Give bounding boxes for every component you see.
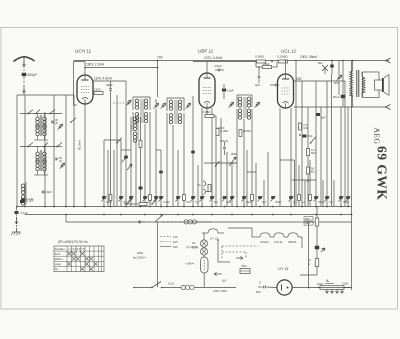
wire antenna bus (17, 94, 74, 96)
wire v339 (338, 61, 340, 96)
capacitor trimmer IF1a (154, 99, 159, 207)
coil oscillator main (130, 114, 138, 142)
svg-text:Schalter: Schalter (55, 247, 65, 251)
resistor 0.2M (202, 110, 214, 118)
wire UCL pins (280, 108, 291, 207)
label 190V 2.2mA (86, 63, 105, 67)
switch bus a (124, 199, 138, 205)
wire v321 (320, 107, 322, 207)
svg-text:1500: 1500 (94, 88, 101, 92)
coil mains choke (184, 220, 212, 224)
resistor small (251, 195, 254, 201)
label 110V 4.8mA (94, 77, 113, 81)
wire switch row 1 (20, 113, 62, 115)
wire UCH g2 line (93, 80, 126, 82)
transformer IF3 (237, 95, 252, 119)
capacitor 50&#181;F (241, 196, 252, 204)
capacitor 45pF (106, 81, 113, 95)
switch S1a (27, 110, 33, 115)
resistor 200 300 (304, 217, 319, 227)
switch tone right (318, 61, 328, 74)
switch S2b (56, 143, 62, 148)
wire chassis bus 2 (25, 214, 352, 216)
svg-text:2MΩ: 2MΩ (231, 152, 237, 156)
capacitor 50pF (55, 156, 62, 163)
wire UY to right (292, 287, 351, 289)
switch bus c (151, 199, 157, 205)
svg-text:Mittel—: Mittel— (55, 257, 64, 261)
resistor 5nF (183, 195, 191, 205)
svg-text:0,1µF: 0,1µF (26, 197, 33, 201)
svg-text:110V, 4.8mA: 110V, 4.8mA (94, 77, 113, 81)
capacitor 0,1 (142, 196, 151, 204)
capacitor tone top (330, 60, 334, 74)
wire v341 (340, 107, 342, 207)
wire UCH screen (84, 67, 158, 69)
arrow band 2 (127, 164, 132, 170)
label header row (68, 247, 85, 251)
coil band L3 (36, 150, 46, 171)
svg-text:0,100: 0,100 (130, 124, 134, 131)
svg-text:AEG: AEG (373, 128, 382, 145)
junction dots bus2 (65, 214, 352, 216)
coil antenna L2 (36, 126, 46, 136)
speaker (363, 72, 390, 98)
tube UCL11 (278, 74, 294, 108)
wire rail E (65, 95, 67, 207)
terminal fork bottom right (385, 104, 390, 109)
wire UCH anode loop (74, 62, 86, 106)
wire v327 (326, 81, 328, 207)
svg-text:400Ω: 400Ω (317, 282, 323, 286)
svg-text:220V≈ 50Hz: 220V≈ 50Hz (213, 289, 228, 293)
capacitor 4.5pF (214, 64, 224, 71)
svg-text:0,1µF: 0,1µF (163, 200, 170, 204)
table band switch (54, 246, 104, 272)
label UBF11 (198, 49, 214, 54)
capacitor 50&#181;F (338, 196, 349, 204)
wire v252 down (251, 119, 253, 207)
capacitor 3uF top (316, 113, 326, 120)
resistor osc grid (139, 117, 142, 207)
potentiometer volume 2M (229, 152, 237, 166)
capacitor 5nF trim (334, 75, 342, 85)
svg-text:25µF: 25µF (275, 200, 281, 204)
svg-text:0,1: 0,1 (262, 200, 266, 204)
wire v294.5 (294, 160, 296, 207)
wire link y172 (247, 171, 256, 173)
wire v237 down (236, 119, 238, 207)
svg-text:25µF: 25µF (318, 200, 324, 204)
wire v308 lower (308, 222, 310, 288)
resistor 2M (256, 62, 277, 69)
svg-text:0,15MΩ: 0,15MΩ (277, 55, 288, 59)
svg-text:10pF: 10pF (46, 190, 53, 194)
switch S1c (70, 118, 76, 123)
svg-text:0,1: 0,1 (195, 200, 199, 204)
wire UCL anode (285, 60, 287, 74)
label theta c (325, 279, 334, 284)
svg-text:500pF: 500pF (28, 73, 38, 77)
capacitor small (128, 196, 133, 202)
tube UY11 circle (277, 280, 292, 295)
wire v334 (333, 180, 335, 207)
svg-text:UBF 11: UBF 11 (198, 49, 214, 54)
wire v331 (331, 74, 333, 207)
svg-text:2MΩ: 2MΩ (263, 62, 270, 66)
wire coil taps 1 (34, 114, 48, 141)
label 18V (296, 77, 303, 81)
label ZF frequency (57, 240, 88, 244)
wire v157 drop (157, 222, 159, 287)
resistor 1,2 (298, 195, 306, 205)
tube UCH11 (77, 75, 93, 104)
ground symbol (11, 228, 20, 235)
label 0.14 (168, 282, 174, 286)
svg-text:220: 220 (173, 245, 178, 249)
wire v117 (116, 95, 118, 207)
capacitor block mid c (191, 151, 195, 154)
label mains small (213, 289, 228, 293)
arrow band 1 (122, 156, 127, 162)
svg-text:UY 11: UY 11 (210, 237, 218, 241)
capacitor block 0.1uF left (21, 199, 34, 203)
svg-text:0,14: 0,14 (168, 282, 174, 286)
wire v131 (130, 117, 132, 207)
capacitor 10pF osc (42, 190, 52, 194)
wire antenna lead dashed (22, 61, 25, 71)
terminal fork top right (385, 58, 390, 63)
wire v110 (110, 95, 112, 207)
wire v126 (125, 81, 127, 207)
wire v345 (344, 81, 346, 207)
capacitor 25&#181;F (270, 196, 281, 204)
wire link y150a (121, 149, 131, 151)
capacitor 0,1&#181;F (158, 196, 170, 204)
wire v244 down (243, 119, 245, 207)
resistor 6xA (308, 258, 319, 267)
lamp scale 1 (200, 240, 207, 247)
wire link y128 (218, 127, 225, 129)
switch tone (215, 161, 220, 167)
capacitor 25&#181;F (313, 196, 324, 204)
wire link y160 (280, 159, 294, 161)
svg-text:2µF: 2µF (222, 279, 227, 283)
svg-text:50µF: 50µF (333, 95, 340, 99)
wire v167 down (166, 125, 168, 207)
wire dial cord (113, 102, 124, 104)
wire mains line (133, 287, 152, 289)
capacitor trimmer b (60, 163, 65, 169)
resistor 50k right (307, 167, 315, 182)
label UY11 (278, 266, 289, 271)
svg-text:kΩ: kΩ (311, 170, 315, 174)
capacitor Ua (315, 246, 326, 252)
svg-text:50,5mA: 50,5mA (78, 140, 82, 150)
svg-text:TA: TA (197, 183, 201, 187)
svg-text:190V, 2.2mA: 190V, 2.2mA (86, 63, 105, 67)
capacitor trimmer IF3a (229, 102, 234, 108)
label 190V 36mA (300, 55, 318, 59)
transformer IF2 (167, 98, 184, 125)
wire mains right seg (267, 286, 278, 289)
capacitor 0,1 (288, 196, 297, 204)
capacitor trimmer IF3b (255, 102, 260, 108)
wire chassis bus 1 (17, 206, 352, 208)
svg-text:MΩ: MΩ (304, 126, 308, 130)
svg-text:0,1µF: 0,1µF (21, 211, 28, 215)
capacitor tuning var (126, 100, 131, 106)
wire rail C (44, 112, 46, 207)
label lamp values (192, 241, 198, 250)
wire v178 (177, 150, 179, 207)
jack TA lower (203, 189, 209, 194)
resistor 0.1M right (307, 148, 316, 156)
svg-text:0,3MΩ: 0,3MΩ (255, 55, 265, 59)
wire v136 (135, 140, 137, 207)
wire lamp chain (203, 233, 205, 287)
capacitor block mid a (124, 156, 128, 159)
resistor small (149, 195, 152, 201)
wire rail F (73, 95, 75, 207)
switch mains (151, 282, 162, 289)
label 240V note (185, 262, 197, 266)
wire y275 (300, 274, 317, 276)
wire v108 (107, 150, 109, 207)
svg-text:3µF: 3µF (227, 200, 232, 204)
wire v150 (149, 124, 151, 207)
svg-text:4,5pF: 4,5pF (214, 64, 222, 68)
svg-text:26W: 26W (137, 251, 143, 255)
transformer output core (357, 70, 359, 97)
lamp scale 2 (200, 248, 207, 255)
svg-text:75Ω: 75Ω (241, 264, 247, 268)
heater UY11 bump (202, 229, 224, 241)
wire mains mid (162, 221, 184, 223)
wire v348 (347, 107, 349, 207)
wire link y163 (204, 162, 237, 164)
wire v256 (255, 163, 257, 207)
wire v104 (103, 140, 105, 207)
svg-text:Kurz: Kurz (55, 252, 61, 256)
label AEG 69 GWK (373, 128, 390, 201)
capacitor 5nF mains (256, 281, 265, 295)
wire heater feed (228, 228, 302, 248)
switch S2a (27, 143, 33, 148)
wire gnd lead (15, 215, 18, 229)
wire v121 (120, 140, 122, 207)
wire link y180 (292, 179, 316, 181)
resistor 0.3M (255, 55, 266, 64)
capacitor block mid b (159, 171, 163, 174)
wire v114 (113, 150, 115, 207)
wire selector dashes (222, 246, 258, 260)
svg-text:1,2: 1,2 (301, 200, 305, 204)
wire rail D (53, 95, 55, 207)
svg-text:UBF11: UBF11 (288, 240, 297, 244)
capacitor 30pF (51, 118, 58, 125)
svg-text:5nF: 5nF (256, 290, 261, 294)
svg-text:(Uₖ=220V): (Uₖ=220V) (186, 245, 198, 249)
wire v317 (316, 207, 318, 276)
wire bus 3 (66, 221, 352, 223)
svg-text:MΩ: MΩ (311, 151, 315, 155)
wire v145 (144, 124, 146, 207)
coil band L4 (36, 161, 46, 171)
jack TA upper (197, 181, 206, 187)
svg-text:UY 11: UY 11 (278, 266, 289, 271)
switch S1d (35, 110, 40, 115)
wire UCL to OT (294, 80, 345, 82)
capacitor trimmer IF2b (186, 103, 191, 109)
wire v268 (267, 152, 269, 207)
svg-text:UCH11: UCH11 (260, 240, 269, 244)
svg-text:150Ω: 150Ω (342, 282, 348, 286)
wire heater path (217, 239, 230, 262)
wire v302 (301, 81, 303, 207)
label 50.5mA rotated (78, 140, 82, 150)
transformer output secondary (362, 72, 365, 98)
capacitor small (229, 196, 234, 202)
svg-text:107V, 4.2mA: 107V, 4.2mA (204, 56, 223, 60)
wire v247 (246, 150, 248, 207)
svg-text:Lang: Lang (55, 262, 61, 266)
wire UCH cathode (84, 104, 86, 207)
capacitor 0.9uF (222, 84, 234, 99)
capacitor 3&#181;F (222, 196, 232, 204)
wire coil taps 2 (34, 147, 48, 176)
resistor 0.15M (277, 55, 288, 64)
svg-text:TA: TA (55, 267, 58, 271)
resistor TA (208, 185, 211, 192)
label UCH11 (75, 49, 91, 54)
wire speaker bottom (294, 106, 386, 108)
capacitor 600V (303, 134, 313, 138)
label Ua note (186, 245, 198, 249)
wire B+ bus (74, 60, 390, 62)
switch mains sel (155, 215, 163, 222)
svg-text:5nF: 5nF (186, 200, 191, 204)
svg-text:UCH 11: UCH 11 (75, 49, 91, 54)
resistor small (309, 195, 312, 201)
legend dashed 220 (160, 245, 178, 249)
wire rail B (24, 95, 26, 207)
wire UBF pins (202, 108, 212, 207)
wire v323 (322, 180, 324, 207)
capacitor block osc (139, 187, 143, 190)
arrow selector (214, 272, 232, 275)
wire rail A (16, 95, 18, 207)
capacitor 0,1 (324, 196, 333, 204)
antenna (14, 57, 35, 62)
svg-text:MΩ: MΩ (318, 61, 322, 65)
wire UBF anode up (193, 62, 256, 74)
svg-text:1 2 3 4 5 6 7 8: 1 2 3 4 5 6 7 8 (68, 247, 85, 251)
svg-text:pF: pF (55, 121, 59, 125)
svg-text:pF: pF (59, 159, 63, 163)
wire v184 down (183, 125, 185, 207)
wire v299 (298, 165, 300, 207)
resistor 0.5M right (299, 123, 308, 136)
label 2uF note (222, 279, 227, 283)
svg-text:5nF: 5nF (334, 81, 339, 85)
svg-text:18V: 18V (296, 77, 303, 81)
svg-text:3Ω: 3Ω (192, 241, 196, 245)
resistor 1500 (94, 88, 103, 95)
wire v227 (226, 152, 228, 207)
tube UBF11 (199, 73, 215, 108)
svg-text:• 240V=…: • 240V=… (185, 262, 197, 266)
label 26W 220V (133, 251, 147, 260)
capacitor 500pF antenna (22, 73, 37, 77)
capacitor grid ucl (270, 84, 279, 87)
capacitor 50uF (333, 95, 345, 99)
svg-text:2µF: 2µF (255, 83, 260, 87)
wire v216 (214, 116, 216, 207)
resistor bus b (139, 203, 147, 206)
wire v310 (309, 160, 311, 207)
capacitor 0,1 (209, 196, 218, 204)
wire v198 (197, 165, 199, 207)
junction dots bus1 (16, 206, 349, 208)
switch S2c (43, 143, 48, 148)
capacitor small (153, 196, 158, 202)
capacitor 0.1uF gnd (15, 207, 28, 216)
switch S1b (49, 110, 55, 115)
wire v173 (172, 125, 174, 207)
svg-text:0,1: 0,1 (214, 200, 218, 204)
wire v316 (315, 81, 317, 207)
wire v161 (160, 150, 162, 207)
resistor 0.1M (216, 116, 228, 143)
legend dashed 125 (160, 240, 178, 244)
wire link y150b (156, 149, 161, 151)
wire bus links (256, 61, 277, 67)
capacitor 0,1 (257, 196, 266, 204)
switch right mid (310, 137, 316, 144)
label 73V (157, 56, 164, 60)
label UCL11 (281, 49, 297, 54)
svg-text:3µF: 3µF (321, 116, 326, 120)
wire v163 drop (157, 60, 159, 97)
svg-text:125: 125 (173, 240, 178, 244)
svg-text:ZF=468/473,36 Hz: ZF=468/473,36 Hz (57, 240, 88, 244)
legend dashed 110 (160, 235, 178, 239)
svg-text:(1MΩ): (1MΩ) (243, 129, 251, 133)
wire v351 (351, 61, 353, 291)
wire drop 66 (65, 215, 67, 223)
wire mains link (138, 220, 155, 223)
wire v296 (295, 60, 297, 207)
wire v305 (304, 180, 306, 207)
svg-text:73V: 73V (157, 56, 164, 60)
transformer output primary (350, 60, 354, 107)
resistor small (109, 195, 112, 201)
ballast tube (201, 257, 209, 273)
wire v308 (307, 107, 309, 207)
svg-text:UCL 11: UCL 11 (281, 49, 297, 54)
wire v343 (342, 60, 344, 107)
resistor heater dropper (317, 282, 352, 290)
svg-text:bei 220V~: bei 220V~ (133, 256, 147, 260)
svg-text:600: 600 (308, 134, 313, 138)
capacitor small (345, 196, 350, 202)
coil mains filter (162, 285, 237, 289)
resistor 1M det (239, 129, 251, 137)
wire v193 (192, 96, 194, 207)
capacitor 0,1 (190, 196, 199, 204)
wire link y140 (104, 139, 121, 141)
